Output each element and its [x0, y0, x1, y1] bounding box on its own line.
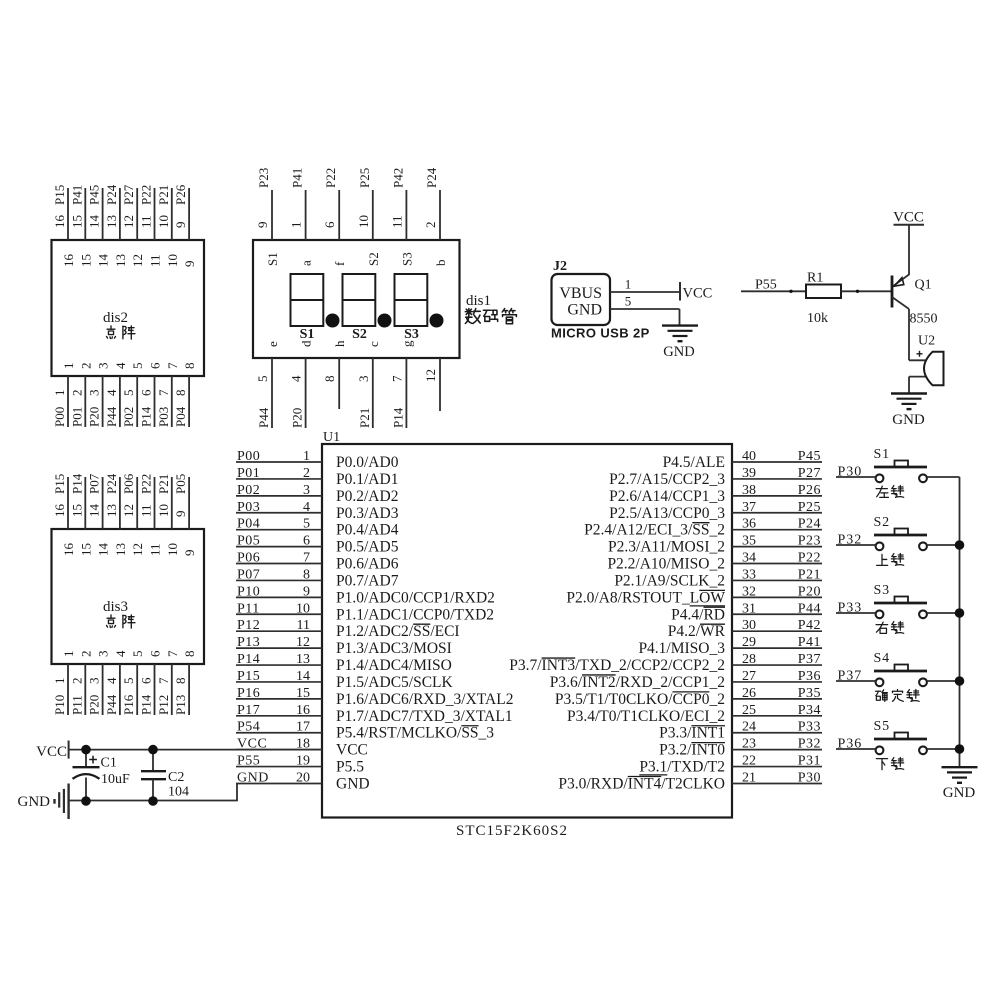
svg-text:3: 3 — [356, 376, 371, 383]
svg-text:P3.6/INT2/RXD_2/CCP1_2: P3.6/INT2/RXD_2/CCP1_2 — [550, 674, 725, 691]
svg-text:26: 26 — [742, 686, 756, 701]
svg-text:GND: GND — [567, 302, 602, 319]
svg-text:P0.4/AD4: P0.4/AD4 — [336, 522, 399, 539]
svg-text:6: 6 — [148, 650, 163, 657]
svg-text:dis2: dis2 — [103, 310, 128, 326]
svg-text:P41: P41 — [798, 635, 821, 650]
svg-text:9: 9 — [182, 550, 197, 557]
svg-text:13: 13 — [113, 254, 128, 267]
svg-text:P12: P12 — [237, 618, 260, 633]
svg-text:f: f — [332, 261, 347, 266]
svg-text:8: 8 — [173, 678, 188, 685]
svg-text:P02: P02 — [121, 407, 136, 427]
svg-text:dis3: dis3 — [103, 599, 128, 615]
svg-text:4: 4 — [113, 362, 128, 369]
svg-text:13: 13 — [104, 504, 119, 517]
svg-text:40: 40 — [742, 449, 756, 464]
svg-text:P1.2/ADC2/SS/ECI: P1.2/ADC2/SS/ECI — [336, 623, 460, 640]
svg-text:P22: P22 — [139, 185, 154, 205]
svg-text:P22: P22 — [798, 551, 821, 566]
node P55 — [755, 278, 777, 293]
svg-text:8: 8 — [173, 390, 188, 397]
dot-matrix display dis3 — [52, 473, 205, 715]
svg-text:P2.4/A12/ECI_3/SS_2: P2.4/A12/ECI_3/SS_2 — [584, 522, 725, 539]
svg-text:P11: P11 — [237, 601, 260, 616]
push button S2 — [874, 515, 928, 565]
svg-text:35: 35 — [742, 534, 756, 549]
node P33 — [838, 601, 863, 616]
svg-text:c: c — [366, 341, 381, 347]
svg-text:R1: R1 — [807, 271, 823, 286]
node P36 — [838, 737, 863, 752]
svg-text:P17: P17 — [237, 703, 260, 718]
svg-text:P3.5/T1/T0CLKO/CCP0_2: P3.5/T1/T0CLKO/CCP0_2 — [555, 691, 725, 708]
svg-text:2: 2 — [69, 390, 84, 397]
svg-text:29: 29 — [742, 635, 756, 650]
svg-text:P4.2/WR: P4.2/WR — [668, 623, 726, 640]
svg-text:8: 8 — [182, 363, 197, 370]
svg-text:7: 7 — [156, 677, 171, 684]
push button S4 — [874, 651, 928, 701]
wire S1 to ground bus — [927, 476, 960, 478]
wire P36 to S5 — [836, 748, 876, 750]
svg-text:P41: P41 — [290, 168, 305, 188]
svg-text:P13: P13 — [237, 635, 260, 650]
svg-text:P06: P06 — [237, 551, 260, 566]
wire ground bus (buttons) — [959, 477, 961, 766]
svg-text:P41: P41 — [69, 185, 84, 205]
svg-text:GND: GND — [663, 344, 694, 360]
svg-text:P07: P07 — [87, 473, 102, 494]
svg-text:P14: P14 — [69, 473, 84, 494]
svg-text:15: 15 — [69, 504, 84, 517]
svg-text:11: 11 — [148, 254, 163, 267]
svg-text:P3.7/INT3/TXD_2/CCP2/CCP2_2: P3.7/INT3/TXD_2/CCP2/CCP2_2 — [509, 657, 725, 674]
svg-text:20: 20 — [296, 770, 310, 785]
svg-text:P44: P44 — [798, 601, 821, 616]
svg-text:9: 9 — [173, 511, 188, 518]
push button S1 — [874, 447, 928, 497]
svg-text:P22: P22 — [323, 168, 338, 188]
svg-text:P05: P05 — [173, 474, 188, 494]
svg-text:13: 13 — [104, 215, 119, 228]
svg-text:P3.1/TXD/T2: P3.1/TXD/T2 — [639, 759, 725, 776]
svg-text:10k: 10k — [807, 311, 828, 326]
svg-text:P16: P16 — [121, 694, 136, 715]
svg-text:P0.3/AD3: P0.3/AD3 — [336, 505, 399, 522]
transistor Q1 8550 (PNP) — [892, 275, 938, 327]
svg-text:14: 14 — [96, 254, 111, 268]
svg-text:P31: P31 — [798, 754, 821, 769]
svg-text:C1: C1 — [101, 756, 117, 771]
svg-text:25: 25 — [742, 703, 756, 718]
svg-text:P24: P24 — [104, 473, 119, 494]
svg-text:8550: 8550 — [910, 312, 938, 327]
svg-text:5: 5 — [121, 678, 136, 685]
svg-text:2: 2 — [69, 678, 84, 685]
svg-text:P4.1/MISO_3: P4.1/MISO_3 — [638, 640, 725, 657]
svg-text:U1: U1 — [323, 430, 340, 445]
svg-text:P30: P30 — [798, 770, 821, 785]
svg-text:P01: P01 — [69, 407, 84, 427]
wire J2 pin 5 to ground — [610, 294, 680, 326]
svg-text:U2: U2 — [918, 334, 935, 349]
wire P55 to R1 — [741, 290, 806, 292]
svg-text:P44: P44 — [104, 694, 119, 715]
svg-text:P23: P23 — [798, 534, 821, 549]
svg-text:19: 19 — [296, 754, 310, 769]
svg-text:1: 1 — [52, 390, 67, 397]
svg-text:P11: P11 — [69, 695, 84, 715]
svg-text:P03: P03 — [156, 407, 171, 427]
svg-text:P54: P54 — [237, 720, 260, 735]
ground symbol (left) — [18, 784, 69, 820]
ground symbol (below U2) — [891, 394, 927, 429]
svg-text:P0.2/AD2: P0.2/AD2 — [336, 488, 398, 505]
svg-text:13: 13 — [296, 652, 310, 667]
svg-text:1: 1 — [303, 449, 310, 464]
svg-text:4: 4 — [289, 375, 304, 382]
node P37 — [838, 669, 863, 684]
svg-text:C2: C2 — [168, 770, 184, 785]
svg-text:7: 7 — [165, 650, 180, 657]
svg-text:2: 2 — [78, 363, 93, 370]
svg-text:38: 38 — [742, 483, 756, 498]
wire GND from U1 pin 20 to ground rail — [69, 784, 238, 801]
svg-text:14: 14 — [296, 669, 310, 684]
svg-text:P15: P15 — [52, 185, 67, 205]
svg-text:P1.7/ADC7/TXD_3/XTAL1: P1.7/ADC7/TXD_3/XTAL1 — [336, 708, 513, 725]
svg-text:GND: GND — [943, 785, 976, 801]
svg-text:P1.4/ADC4/MISO: P1.4/ADC4/MISO — [336, 657, 452, 674]
power flag VCC (at J2) — [680, 282, 712, 302]
svg-text:GND: GND — [336, 775, 370, 792]
svg-text:1: 1 — [625, 277, 632, 292]
svg-text:15: 15 — [78, 543, 93, 556]
svg-text:P3.2/INT0: P3.2/INT0 — [659, 742, 725, 759]
svg-text:1: 1 — [52, 678, 67, 685]
svg-text:P20: P20 — [87, 695, 102, 715]
svg-text:104: 104 — [168, 785, 189, 800]
svg-text:11: 11 — [297, 618, 310, 633]
svg-text:dis1: dis1 — [466, 293, 491, 309]
svg-text:28: 28 — [742, 652, 756, 667]
svg-text:P0.5/AD5: P0.5/AD5 — [336, 539, 399, 556]
svg-text:S3: S3 — [404, 327, 419, 342]
svg-text:22: 22 — [742, 754, 756, 769]
svg-text:S4: S4 — [874, 651, 890, 666]
wire VCC rail to U1 pin 18 — [69, 749, 322, 751]
svg-text:P4.4/RD: P4.4/RD — [671, 606, 725, 623]
svg-text:P10: P10 — [237, 584, 260, 599]
svg-text:P35: P35 — [798, 686, 821, 701]
svg-text:P2.5/A13/CCP0_3: P2.5/A13/CCP0_3 — [609, 505, 725, 522]
svg-text:P25: P25 — [357, 168, 372, 188]
node P32 — [838, 533, 863, 548]
dot-matrix display dis2 — [52, 184, 205, 427]
svg-text:10: 10 — [296, 601, 310, 616]
svg-text:P16: P16 — [237, 686, 260, 701]
svg-text:P1.5/ADC5/SCLK: P1.5/ADC5/SCLK — [336, 674, 454, 691]
svg-text:P05: P05 — [237, 534, 260, 549]
svg-text:P0.6/AD6: P0.6/AD6 — [336, 556, 399, 573]
svg-text:5: 5 — [255, 376, 270, 383]
svg-text:7: 7 — [165, 362, 180, 369]
wire S4 to ground bus — [927, 680, 960, 682]
svg-text:P00: P00 — [237, 449, 260, 464]
svg-text:23: 23 — [742, 737, 756, 752]
svg-text:S2: S2 — [366, 252, 381, 266]
svg-text:P3.3/INT1: P3.3/INT1 — [659, 725, 725, 742]
wire S5 to ground bus — [927, 748, 960, 750]
svg-text:9: 9 — [182, 261, 197, 268]
svg-text:16: 16 — [296, 703, 310, 718]
svg-text:P1.6/ADC6/RXD_3/XTAL2: P1.6/ADC6/RXD_3/XTAL2 — [336, 691, 513, 708]
svg-text:33: 33 — [742, 567, 756, 582]
7-segment display dis1 — [253, 167, 516, 428]
svg-text:a: a — [299, 260, 314, 266]
svg-text:P2.1/A9/SCLK_2: P2.1/A9/SCLK_2 — [614, 572, 725, 589]
svg-text:2: 2 — [423, 222, 438, 229]
svg-text:P07: P07 — [237, 567, 260, 582]
svg-text:12: 12 — [296, 635, 310, 650]
svg-text:P1.0/ADC0/CCP1/RXD2: P1.0/ADC0/CCP1/RXD2 — [336, 589, 495, 606]
svg-text:3: 3 — [87, 678, 102, 685]
svg-text:P24: P24 — [798, 517, 821, 532]
wire P37 to S4 — [836, 680, 876, 682]
svg-text:P10: P10 — [52, 695, 67, 715]
svg-text:P20: P20 — [290, 408, 305, 428]
push button S3 — [874, 583, 928, 633]
svg-text:P0.1/AD1: P0.1/AD1 — [336, 471, 398, 488]
svg-text:12: 12 — [121, 215, 136, 228]
svg-text:4: 4 — [113, 650, 128, 657]
svg-text:GND: GND — [18, 794, 51, 810]
svg-text:8: 8 — [322, 376, 337, 383]
svg-text:P27: P27 — [798, 466, 821, 481]
svg-text:7: 7 — [156, 389, 171, 396]
svg-text:P04: P04 — [173, 406, 188, 427]
svg-text:P42: P42 — [798, 618, 821, 633]
svg-text:P44: P44 — [104, 406, 119, 427]
junction dots on power rails — [81, 745, 158, 806]
svg-text:10: 10 — [156, 504, 171, 517]
push button S5 — [874, 719, 928, 770]
svg-text:P02: P02 — [237, 483, 260, 498]
svg-text:P0.0/AD0: P0.0/AD0 — [336, 454, 399, 471]
svg-text:39: 39 — [742, 466, 756, 481]
svg-text:11: 11 — [139, 215, 154, 228]
svg-text:P36: P36 — [798, 669, 821, 684]
svg-text:P34: P34 — [798, 703, 821, 718]
svg-text:10uF: 10uF — [101, 772, 130, 787]
svg-text:12: 12 — [130, 543, 145, 556]
svg-text:P12: P12 — [156, 695, 171, 715]
svg-text:VCC: VCC — [683, 286, 713, 302]
node P30 — [838, 465, 863, 480]
svg-text:8: 8 — [303, 567, 310, 582]
svg-text:37: 37 — [742, 500, 756, 515]
svg-text:J2: J2 — [553, 259, 567, 274]
capacitor C2 104 — [141, 750, 189, 801]
svg-text:STC15F2K60S2: STC15F2K60S2 — [456, 823, 568, 839]
svg-text:P23: P23 — [256, 168, 271, 188]
svg-text:P15: P15 — [52, 474, 67, 494]
svg-text:24: 24 — [742, 720, 756, 735]
wire S2 to ground bus — [927, 544, 960, 546]
svg-text:16: 16 — [52, 215, 67, 229]
svg-text:11: 11 — [148, 543, 163, 556]
svg-text:P0.7/AD7: P0.7/AD7 — [336, 572, 399, 589]
svg-text:P14: P14 — [139, 406, 154, 427]
svg-text:P45: P45 — [798, 449, 821, 464]
svg-text:12: 12 — [423, 369, 438, 382]
svg-text:P44: P44 — [256, 407, 271, 428]
svg-text:34: 34 — [742, 551, 756, 566]
svg-text:P04: P04 — [237, 517, 260, 532]
svg-text:P25: P25 — [798, 500, 821, 515]
svg-text:10: 10 — [165, 543, 180, 556]
svg-text:P20: P20 — [798, 584, 821, 599]
svg-text:S2: S2 — [874, 515, 890, 530]
svg-text:P37: P37 — [798, 652, 821, 667]
svg-text:27: 27 — [742, 669, 756, 684]
svg-text:P26: P26 — [798, 483, 821, 498]
svg-text:7: 7 — [303, 551, 310, 566]
wire U2 to ground — [908, 377, 910, 394]
svg-text:P5.4/RST/MCLKO/SS_3: P5.4/RST/MCLKO/SS_3 — [336, 725, 494, 742]
svg-text:14: 14 — [87, 504, 102, 518]
svg-text:b: b — [433, 260, 448, 267]
svg-text:S1: S1 — [265, 252, 280, 266]
svg-text:4: 4 — [104, 677, 119, 684]
wire Q1 collector to U2 — [908, 309, 910, 360]
svg-text:S1: S1 — [300, 327, 315, 342]
svg-text:P55: P55 — [755, 278, 777, 293]
svg-text:10: 10 — [156, 215, 171, 228]
svg-text:P5.5: P5.5 — [336, 759, 364, 776]
svg-text:P15: P15 — [237, 669, 260, 684]
svg-text:S2: S2 — [352, 327, 367, 342]
svg-text:15: 15 — [78, 254, 93, 267]
svg-text:S3: S3 — [874, 583, 890, 598]
svg-text:P22: P22 — [139, 474, 154, 494]
svg-text:S3: S3 — [399, 252, 414, 266]
svg-text:2: 2 — [303, 466, 310, 481]
svg-text:12: 12 — [130, 254, 145, 267]
svg-text:5: 5 — [121, 390, 136, 397]
svg-text:6: 6 — [303, 534, 310, 549]
svg-text:P3.4/T0/T1CLKO/ECI_2: P3.4/T0/T1CLKO/ECI_2 — [567, 708, 725, 725]
svg-text:3: 3 — [96, 651, 111, 658]
svg-text:P55: P55 — [237, 754, 260, 769]
svg-text:P2.0/A8/RSTOUT_LOW: P2.0/A8/RSTOUT_LOW — [566, 589, 725, 606]
svg-text:P20: P20 — [87, 407, 102, 427]
svg-text:11: 11 — [389, 215, 404, 228]
svg-text:5: 5 — [625, 294, 632, 309]
svg-text:10: 10 — [165, 254, 180, 267]
svg-text:32: 32 — [742, 584, 756, 599]
svg-text:1: 1 — [289, 222, 304, 229]
svg-text:GND: GND — [892, 412, 925, 428]
svg-text:P21: P21 — [798, 567, 821, 582]
microcontroller U1 STC15F2K60S2 — [236, 430, 822, 839]
svg-text:P13: P13 — [173, 695, 188, 715]
svg-text:P00: P00 — [52, 407, 67, 427]
svg-text:30: 30 — [742, 618, 756, 633]
svg-text:6: 6 — [322, 221, 337, 228]
svg-text:P2.7/A15/CCP2_3: P2.7/A15/CCP2_3 — [609, 471, 725, 488]
wire R1 to Q1 base — [789, 290, 891, 293]
svg-text:P32: P32 — [798, 737, 821, 752]
svg-text:4: 4 — [303, 500, 310, 515]
svg-text:P1.1/ADC1/CCP0/TXD2: P1.1/ADC1/CCP0/TXD2 — [336, 606, 494, 623]
svg-text:P33: P33 — [798, 720, 821, 735]
svg-text:S1: S1 — [874, 447, 890, 462]
svg-text:VCC: VCC — [893, 210, 924, 226]
svg-text:P24: P24 — [104, 184, 119, 205]
svg-text:1: 1 — [61, 363, 76, 370]
svg-text:P1.3/ADC3/MOSI: P1.3/ADC3/MOSI — [336, 640, 452, 657]
svg-text:21: 21 — [742, 770, 756, 785]
svg-text:P21: P21 — [156, 474, 171, 494]
wire J2 pin 1 to VCC — [610, 277, 680, 293]
svg-text:9: 9 — [303, 584, 310, 599]
svg-text:6: 6 — [139, 389, 154, 396]
svg-text:12: 12 — [121, 504, 136, 517]
resistor R1 10k — [806, 271, 841, 327]
svg-text:P2.2/A10/MISO_2: P2.2/A10/MISO_2 — [607, 556, 725, 573]
svg-text:10: 10 — [356, 215, 371, 228]
svg-text:3: 3 — [96, 363, 111, 370]
wire P32 to S2 — [836, 544, 876, 546]
svg-text:15: 15 — [296, 686, 310, 701]
svg-text:16: 16 — [61, 543, 76, 557]
svg-text:13: 13 — [113, 543, 128, 556]
wire VCC to Q1 emitter — [908, 225, 910, 275]
buzzer U2 — [909, 334, 944, 386]
svg-text:P03: P03 — [237, 500, 260, 515]
svg-text:36: 36 — [742, 517, 756, 532]
svg-text:5: 5 — [130, 651, 145, 658]
svg-text:P01: P01 — [237, 466, 260, 481]
svg-text:P21: P21 — [156, 185, 171, 205]
svg-text:6: 6 — [148, 362, 163, 369]
svg-text:P3.0/RXD/INT4/T2CLKO: P3.0/RXD/INT4/T2CLKO — [558, 775, 725, 792]
svg-text:P14: P14 — [139, 694, 154, 715]
svg-text:16: 16 — [61, 254, 76, 268]
svg-text:VCC: VCC — [36, 744, 67, 760]
svg-text:3: 3 — [87, 390, 102, 397]
svg-text:MICRO USB 2P: MICRO USB 2P — [551, 326, 650, 341]
power flag VCC (left) — [36, 741, 68, 761]
svg-text:2: 2 — [78, 651, 93, 658]
svg-text:4: 4 — [104, 389, 119, 396]
svg-text:h: h — [332, 340, 347, 347]
svg-text:P24: P24 — [424, 167, 439, 188]
svg-text:9: 9 — [255, 222, 270, 229]
svg-text:3: 3 — [303, 483, 310, 498]
wire P33 to S3 — [836, 612, 876, 614]
svg-text:P26: P26 — [173, 184, 188, 205]
svg-text:P45: P45 — [87, 185, 102, 205]
svg-text:e: e — [265, 341, 280, 347]
svg-text:6: 6 — [139, 677, 154, 684]
svg-text:P14: P14 — [237, 652, 260, 667]
svg-text:14: 14 — [96, 543, 111, 557]
connector J2 MICRO USB 2P — [551, 259, 650, 341]
svg-text:31: 31 — [742, 601, 756, 616]
